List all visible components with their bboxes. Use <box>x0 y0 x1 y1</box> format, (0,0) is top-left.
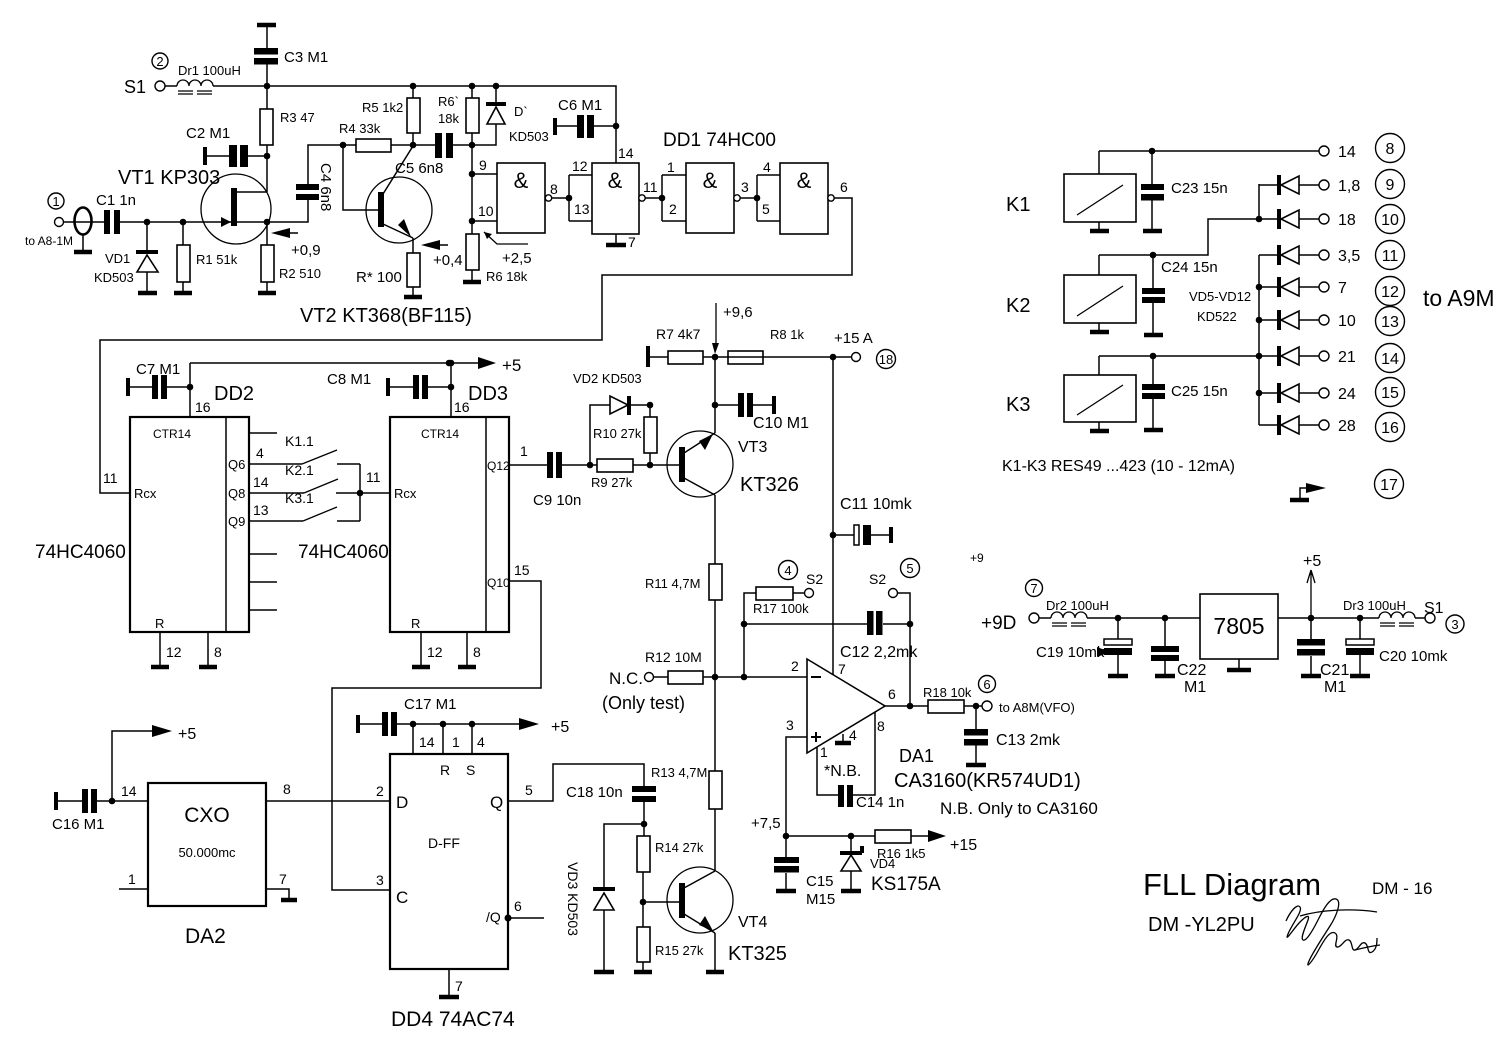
annotation +0,4 <box>421 240 463 269</box>
wire supply rail top <box>213 86 616 163</box>
wire pin3 non-inv input <box>786 737 807 836</box>
svg-text:*N.B.: *N.B. <box>824 763 861 780</box>
svg-text:5: 5 <box>906 561 913 576</box>
inductor Dr2 100uH <box>1039 598 1109 626</box>
ground with arrow (node 17) <box>1290 470 1404 501</box>
resistor R5 1k2 <box>362 86 420 145</box>
svg-text:to A9M: to A9M <box>1423 285 1495 311</box>
resistor R8 1k <box>715 327 851 364</box>
svg-text:DM - 16: DM - 16 <box>1372 879 1432 898</box>
svg-text:Dr1 100uH: Dr1 100uH <box>178 63 241 78</box>
svg-text:9: 9 <box>1386 177 1395 194</box>
DD4 pins 14,1,4 <box>410 721 485 754</box>
resistor R9 27k <box>591 459 679 490</box>
svg-text:S2: S2 <box>869 571 886 587</box>
svg-text:&: & <box>608 168 623 193</box>
svg-text:C17 M1: C17 M1 <box>404 696 457 713</box>
svg-text:14: 14 <box>121 783 137 799</box>
svg-text:Rcx: Rcx <box>134 486 157 501</box>
capacitor C15 M15 <box>774 836 835 908</box>
svg-text:C6 M1: C6 M1 <box>558 97 602 114</box>
svg-text:10: 10 <box>1338 313 1356 330</box>
node junction <box>1256 317 1263 324</box>
wire junction down to gate inputs <box>471 145 473 234</box>
capacitor C9 10n <box>533 452 597 509</box>
svg-text:13: 13 <box>1381 314 1399 331</box>
node junction +5 <box>1308 615 1315 622</box>
resistor R17 100k <box>744 587 809 624</box>
node junction +7,5 <box>783 833 790 840</box>
wire input bracket gate 1/2 <box>662 175 686 221</box>
capacitor C14 1n (pins 1-8) <box>817 712 904 811</box>
svg-text:R1 51k: R1 51k <box>196 252 238 267</box>
resistor R* 100 <box>356 238 422 297</box>
capacitor C3 M1 <box>254 25 328 86</box>
svg-text:K1: K1 <box>1006 194 1030 216</box>
svg-text:N.B. Only to CA3160: N.B. Only to CA3160 <box>940 799 1098 818</box>
svg-text:S1: S1 <box>124 77 146 97</box>
capacitor C6 M1 <box>553 97 616 138</box>
node junction C12 rail left <box>741 621 748 628</box>
svg-text:+9,6: +9,6 <box>723 304 753 321</box>
ground DD3 pin12 <box>412 632 443 667</box>
resistor R15 27k <box>634 902 704 972</box>
capacitor C10 M1 <box>715 393 809 432</box>
svg-text:1: 1 <box>452 734 460 750</box>
svg-text:D`: D` <box>514 104 528 119</box>
svg-text:8: 8 <box>283 781 291 797</box>
svg-text:K1-K3 RES49 ...423 (10 - 12mA: K1-K3 RES49 ...423 (10 - 12mA) <box>1002 458 1235 475</box>
svg-text:Q6: Q6 <box>228 457 245 472</box>
svg-text:12: 12 <box>1381 284 1399 301</box>
capacitor C5 6n8 <box>395 133 472 177</box>
resistor R2 510 <box>258 222 321 293</box>
svg-text:3,5: 3,5 <box>1338 248 1360 265</box>
svg-text:S: S <box>466 762 475 778</box>
diode VD6 (18) <box>1259 205 1405 234</box>
svg-text:VD2 KD503: VD2 KD503 <box>573 371 642 386</box>
node junction C2/R3 <box>264 153 271 160</box>
annotation +2,5 <box>484 232 532 267</box>
capacitor C7 M1 <box>126 361 190 399</box>
svg-text:K2: K2 <box>1006 295 1030 317</box>
svg-text:R2 510: R2 510 <box>279 266 321 281</box>
ground DD3 pin8 <box>458 632 481 667</box>
capacitor C17 M1 <box>356 696 519 736</box>
node junction C11 <box>830 532 837 539</box>
wire +5 rail DD2/DD3 <box>190 362 478 364</box>
svg-text:11: 11 <box>1382 248 1399 265</box>
annotation +0,9 <box>271 228 321 259</box>
CXO pin1 stub <box>119 888 148 890</box>
switch K1.1 <box>285 433 360 464</box>
terminal N.C. / resistor R12 10M <box>602 649 807 713</box>
svg-text:VT4: VT4 <box>738 914 767 931</box>
svg-text:11: 11 <box>366 469 381 485</box>
node junction <box>754 195 761 202</box>
DD3 74HC4060 <box>298 383 510 632</box>
node junction R7/R8 <box>712 354 719 361</box>
node junction VD2/R10 <box>647 402 654 409</box>
terminal +15 A / node 18 <box>834 330 896 369</box>
svg-text:KD503: KD503 <box>509 129 549 144</box>
terminal 14 node 8 <box>1319 134 1405 163</box>
wire input bracket gate 12/13 <box>569 175 592 221</box>
svg-text:7: 7 <box>1338 280 1347 297</box>
svg-text:7805: 7805 <box>1213 613 1264 639</box>
svg-text:+9D: +9D <box>981 613 1016 634</box>
svg-text:2: 2 <box>669 201 677 217</box>
node junction pin9 <box>469 171 476 178</box>
node junction <box>446 360 453 367</box>
node junction R4/C4 <box>340 142 347 149</box>
node junction C7 <box>187 384 194 391</box>
svg-text:VD4: VD4 <box>870 856 895 871</box>
regulator 7805 <box>1200 594 1278 670</box>
svg-text:14: 14 <box>618 145 634 161</box>
svg-text:18: 18 <box>879 352 893 367</box>
node junction C5/R6` <box>469 142 476 149</box>
diode VD10 (21) <box>1259 344 1405 373</box>
svg-text:CTR14: CTR14 <box>153 427 191 441</box>
+5 arrow <box>478 356 521 375</box>
svg-text:Q12: Q12 <box>487 459 510 473</box>
wire Q12 pin1 to C9 <box>509 464 547 466</box>
gate DD1.4 (pins 12,13 - 11) <box>572 145 658 234</box>
svg-text:R11 4,7M: R11 4,7M <box>645 576 700 591</box>
wire DD4 Q to C18 <box>508 764 644 801</box>
capacitor C8 M1 <box>327 371 451 399</box>
DD2 output stubs <box>249 433 277 610</box>
capacitor C25 15n <box>1142 356 1228 430</box>
svg-text:24: 24 <box>1338 386 1356 403</box>
svg-text:C13 2mk: C13 2mk <box>996 732 1061 749</box>
svg-text:8: 8 <box>877 718 885 734</box>
capacitor C21 M1 <box>1297 618 1349 696</box>
node junction <box>1256 353 1263 360</box>
svg-text:KD503: KD503 <box>94 270 134 285</box>
svg-text:6: 6 <box>983 677 990 692</box>
svg-text:R4 33k: R4 33k <box>339 121 381 136</box>
resistor R7 4k7 <box>646 326 715 367</box>
svg-text:+7,5: +7,5 <box>751 815 781 832</box>
svg-text:8: 8 <box>214 644 222 660</box>
transistor VT2 KT368(BF115) <box>300 146 472 327</box>
DD2 74HC4060 <box>35 383 254 632</box>
svg-text:C24 15n: C24 15n <box>1161 259 1218 276</box>
svg-text:CA3160(KR574UD1): CA3160(KR574UD1) <box>894 770 1081 792</box>
svg-text:16: 16 <box>1381 420 1399 437</box>
node junction R4/R5/C5 <box>410 142 417 149</box>
wire gate3 out <box>740 197 757 199</box>
svg-text:C: C <box>396 888 408 907</box>
svg-text:3: 3 <box>376 872 384 888</box>
svg-text:+0,4: +0,4 <box>433 252 463 269</box>
wire gate11 out <box>645 197 662 199</box>
node junction <box>357 490 364 497</box>
svg-text:DD4 74AC74: DD4 74AC74 <box>391 1008 515 1031</box>
wire Q8 pin14 <box>249 492 304 494</box>
capacitor C4 6n8 <box>267 145 343 222</box>
svg-text:+5: +5 <box>502 356 521 375</box>
node junction <box>566 195 573 202</box>
ground DD2 pin8 <box>199 632 222 667</box>
svg-text:Q10: Q10 <box>487 576 510 590</box>
svg-text:R3 47: R3 47 <box>280 110 315 125</box>
svg-text:2: 2 <box>791 658 799 674</box>
+5 arrow DD4 <box>519 718 569 736</box>
wire diode bus VD7-VD12 <box>1258 255 1260 425</box>
svg-text:12: 12 <box>427 644 443 660</box>
svg-text:50.000mc: 50.000mc <box>178 845 236 860</box>
node junction base VT4 <box>640 899 647 906</box>
node junction C9/R9/VD2 <box>587 462 594 469</box>
wire Q9 pin13 <box>249 520 303 522</box>
node junction <box>1256 216 1263 223</box>
svg-text:CTR14: CTR14 <box>421 427 459 441</box>
svg-text:11: 11 <box>643 179 658 195</box>
node junction rail/R5 <box>410 83 417 90</box>
svg-text:VD3 KD503: VD3 KD503 <box>565 862 581 936</box>
svg-text:2: 2 <box>376 783 384 799</box>
svg-text:12: 12 <box>572 158 588 174</box>
resistor R4 33k <box>339 121 413 152</box>
svg-text:74HC4060: 74HC4060 <box>298 542 389 563</box>
svg-text:74HC4060: 74HC4060 <box>35 542 126 563</box>
svg-text:2: 2 <box>156 54 163 69</box>
node junction C18/R14/VD3 <box>641 821 648 828</box>
wire gate8 out <box>552 197 569 199</box>
resistor R10 27k <box>593 405 657 465</box>
wire base VT2 <box>343 145 378 210</box>
svg-text:3: 3 <box>786 717 794 733</box>
wire K3 to diode bus <box>1099 355 1259 357</box>
switch K3.1 <box>285 490 360 521</box>
transistor VT1 KP303 (JFET) <box>118 167 271 244</box>
svg-text:C8 M1: C8 M1 <box>327 371 371 388</box>
svg-text:K3: K3 <box>1006 394 1030 416</box>
wire C12 right down to output <box>909 624 911 706</box>
svg-text:4: 4 <box>477 734 485 750</box>
diode VD11 (24) <box>1259 378 1405 407</box>
svg-text:VD1: VD1 <box>105 251 130 266</box>
diode VD5 (1,8) <box>1259 170 1405 199</box>
signature <box>1286 899 1377 965</box>
svg-text:C4 6n8: C4 6n8 <box>317 163 334 211</box>
svg-text:1,8: 1,8 <box>1338 178 1360 195</box>
node junction inv input <box>741 674 748 681</box>
svg-text:13: 13 <box>253 502 269 518</box>
+5 arrow CXO <box>112 725 196 801</box>
ground gate pin 7 <box>606 234 636 250</box>
svg-text:KT325: KT325 <box>728 943 787 965</box>
svg-text:5: 5 <box>762 201 770 217</box>
svg-text:C25 15n: C25 15n <box>1171 383 1228 400</box>
svg-text:5: 5 <box>525 782 533 798</box>
svg-text:D: D <box>396 793 408 812</box>
svg-text:8: 8 <box>1386 141 1395 158</box>
svg-text:21: 21 <box>1338 349 1356 366</box>
svg-text:3: 3 <box>1451 617 1458 632</box>
svg-text:Dr2 100uH: Dr2 100uH <box>1046 598 1109 613</box>
svg-text:R9 27k: R9 27k <box>591 475 633 490</box>
relay K1 <box>1006 151 1136 231</box>
wire drain up <box>266 156 268 192</box>
OP-AMP DA1 <box>786 658 1098 818</box>
diode VD9 (10) <box>1259 307 1405 336</box>
CXO DA2 <box>148 783 266 948</box>
svg-text:C12 2,2mk: C12 2,2mk <box>840 644 918 661</box>
svg-text:1: 1 <box>820 744 828 760</box>
svg-text:C19 10mk: C19 10mk <box>1036 644 1105 661</box>
terminal +9D node 7 <box>981 580 1043 635</box>
svg-text:+0,9: +0,9 <box>291 242 321 259</box>
svg-text:15: 15 <box>514 562 530 578</box>
svg-text:17: 17 <box>1380 477 1398 494</box>
capacitor C23 15n <box>1141 151 1228 231</box>
svg-text:C16 M1: C16 M1 <box>52 816 105 833</box>
svg-text:R5 1k2: R5 1k2 <box>362 100 403 115</box>
svg-text:Q8: Q8 <box>228 486 245 501</box>
wire 7805 output <box>1278 617 1379 619</box>
svg-text:Dr3 100uH: Dr3 100uH <box>1343 598 1406 613</box>
terminal S2 node 5 <box>869 559 920 625</box>
svg-text:7: 7 <box>279 871 287 887</box>
svg-text:1: 1 <box>520 443 528 459</box>
node junction source <box>264 219 271 226</box>
capacitor C18 10n <box>566 784 656 824</box>
svg-text:7: 7 <box>1030 581 1037 596</box>
svg-text:+15 A: +15 A <box>834 330 873 347</box>
node junction output <box>907 703 914 710</box>
svg-text:Rcx: Rcx <box>394 486 417 501</box>
svg-text:+15: +15 <box>950 837 977 854</box>
svg-text:R13 4,7M: R13 4,7M <box>651 765 707 780</box>
diode VD1 KD503 <box>94 222 158 293</box>
svg-text:4: 4 <box>784 563 791 578</box>
svg-text:C1 1n: C1 1n <box>96 192 136 209</box>
svg-text:DA1: DA1 <box>899 746 934 766</box>
svg-text:R: R <box>411 616 420 631</box>
ground DD4 pin7 <box>439 969 463 997</box>
wire C1 to gate VT1 <box>120 221 232 223</box>
node junction +5 rail <box>448 360 455 367</box>
svg-text:CXO: CXO <box>184 804 230 827</box>
svg-text:9: 9 <box>479 157 487 173</box>
svg-text:C7 M1: C7 M1 <box>136 361 180 378</box>
resistor R18 10k <box>923 685 982 713</box>
svg-text:N.C.: N.C. <box>609 669 643 688</box>
node junction <box>1256 284 1263 291</box>
terminal S1 node 3 <box>1415 600 1464 633</box>
ground VT4 emitter <box>706 933 724 972</box>
svg-text:S1: S1 <box>1424 600 1444 617</box>
svg-text:6: 6 <box>840 179 848 195</box>
transistor VT4 KT325 <box>643 867 787 965</box>
node junction rail/R6` <box>469 83 476 90</box>
inductor Dr1 100uH <box>165 63 241 94</box>
resistor R13 4,7M <box>651 677 722 871</box>
svg-text:K3.1: K3.1 <box>285 490 314 506</box>
svg-text:S2: S2 <box>806 571 823 587</box>
svg-text:VD5-VD12: VD5-VD12 <box>1189 289 1251 304</box>
node junction pin10 <box>469 218 476 225</box>
capacitor C19 10mk <box>1036 618 1132 676</box>
wire CXO pin8 to DD4 D <box>266 800 390 802</box>
diode VD2 KD503 <box>573 371 650 465</box>
wire emitter up <box>714 405 716 433</box>
svg-text:C15: C15 <box>806 873 834 890</box>
diode VD12 (28) <box>1259 413 1405 442</box>
diode D` KD503 <box>472 86 549 145</box>
svg-text:DA2: DA2 <box>185 925 226 948</box>
svg-text:&: & <box>703 168 718 193</box>
svg-text:R6`: R6` <box>438 94 459 109</box>
resistor R16 1k5 <box>875 830 977 861</box>
svg-text:10: 10 <box>1381 212 1399 229</box>
capacitor C24 15n <box>1142 255 1218 335</box>
svg-text:+9: +9 <box>970 551 984 565</box>
svg-text:+5: +5 <box>1303 553 1321 570</box>
resistor R11 4,7M <box>645 564 722 677</box>
svg-text:4: 4 <box>849 727 857 743</box>
svg-text:D-FF: D-FF <box>428 835 460 851</box>
svg-text:4: 4 <box>256 445 264 461</box>
node junction rail/C3 <box>264 83 271 90</box>
svg-text:R: R <box>155 616 164 631</box>
capacitor C22 M1 <box>1151 618 1206 696</box>
node junction C13 <box>973 703 980 710</box>
svg-text:C5 6n8: C5 6n8 <box>395 160 443 177</box>
svg-text:11: 11 <box>103 470 118 486</box>
relay K2 <box>1006 255 1136 332</box>
svg-text:1: 1 <box>128 871 136 887</box>
resistor R1 51k <box>174 222 238 293</box>
svg-text:K2.1: K2.1 <box>285 462 314 478</box>
svg-text:14: 14 <box>419 734 435 750</box>
svg-text:C14 1n: C14 1n <box>856 794 904 811</box>
capacitor C12 2,2mk <box>744 611 918 661</box>
svg-text:R: R <box>440 762 450 778</box>
terminal S2 node 4 <box>779 561 824 598</box>
node junction VD2/C10 <box>712 402 719 409</box>
svg-text:to A8M(VFO): to A8M(VFO) <box>999 700 1075 715</box>
svg-text:12: 12 <box>166 644 182 660</box>
capacitor C11 10mk <box>833 496 913 545</box>
svg-text:&: & <box>797 168 812 193</box>
svg-text:R* 100: R* 100 <box>356 269 402 286</box>
svg-text:M1: M1 <box>1184 679 1206 696</box>
svg-text:1: 1 <box>667 159 675 175</box>
svg-text:&: & <box>514 168 529 193</box>
resistor R6` 18k <box>438 86 479 145</box>
node junction C22 <box>1162 615 1169 622</box>
node junction C16/+5 <box>109 798 116 805</box>
svg-text:K1.1: K1.1 <box>285 433 314 449</box>
wire switch bus to DD3 Rcx <box>360 464 390 521</box>
node junction C12 right <box>907 621 914 628</box>
svg-text:R17 100k: R17 100k <box>753 601 809 616</box>
annotation +9,6 <box>712 303 753 354</box>
svg-text:C20 10mk: C20 10mk <box>1379 648 1448 665</box>
gate DD1.2 (pins 9,10 - 8) <box>472 157 558 233</box>
diode VD3 KD503 <box>565 824 644 972</box>
svg-text:DD1 74HC00: DD1 74HC00 <box>663 130 776 151</box>
wire VT3 emitter node down from R7/R8 <box>714 357 716 405</box>
svg-text:Q9: Q9 <box>228 514 245 529</box>
wire K1 to terminal 14 <box>1099 150 1319 152</box>
wire pin16 DD3 <box>450 363 452 417</box>
